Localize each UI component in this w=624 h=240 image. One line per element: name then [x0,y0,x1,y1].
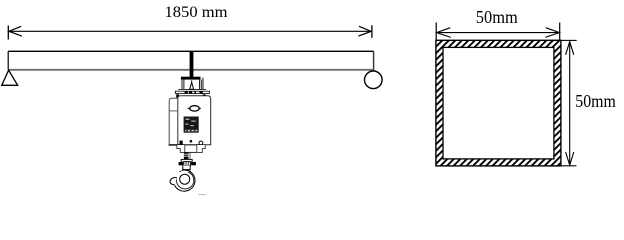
hook beak [170,178,177,185]
left panel divider [169,110,178,112]
suspension cross line [178,89,206,91]
hook shadow [198,194,205,196]
top arrowhead right [545,28,559,38]
pin support triangle left [2,70,18,85]
dimension line 1850 [9,30,371,32]
bracket posts [182,78,203,90]
hook shank [183,165,190,169]
top dim extension right [559,23,561,41]
hook body outer [175,170,195,191]
bottom small knob [190,140,193,143]
hook collar [179,170,191,172]
hoist hanger bar [190,52,194,77]
hook body inner contour [176,172,193,189]
left panel [169,98,178,145]
suspension band [175,91,209,93]
bottom fitting bolt [180,141,183,145]
right arrowhead bottom [566,152,574,165]
swivel nut left [179,162,184,165]
body top right stubs [203,96,206,144]
swivel plate [181,159,192,162]
label sticker [184,117,199,133]
arrowhead right [358,26,371,36]
tube inner outline [443,47,554,158]
beam bottom line (gray) [8,69,373,71]
swivel nut right [191,162,196,165]
oval emblem [190,106,199,111]
top dim extension left [435,23,437,41]
beam outline [8,51,173,69]
right dimension line [569,42,571,166]
dimension extension tick right [371,25,373,38]
svg-text:1850 mm: 1850 mm [165,4,229,21]
right arrowhead top [566,42,574,55]
right dim extension top [562,39,577,41]
ribbed shaft [184,152,189,159]
roller support circle right [365,71,383,89]
tube wall hatched [436,40,561,166]
swivel cylinder [184,162,191,166]
svg-text:50mm: 50mm [575,91,616,111]
center cone hook holder [191,80,193,83]
main body [178,96,211,145]
tube outer outline [436,40,561,166]
chain block [185,145,197,152]
body top band [180,96,202,98]
top dimension line [437,32,560,34]
hook eye inner [180,174,190,184]
arrowhead left [9,26,22,36]
band bolts [176,91,205,98]
hoist top cross bar [181,77,201,80]
dimension extension tick left [7,26,9,40]
bottom ring [199,141,203,145]
top arrowhead left [437,28,451,38]
bottom plate [177,145,205,152]
svg-text:50mm: 50mm [476,7,518,27]
bottom plate line [169,144,204,146]
right dim extension bottom [562,165,577,167]
shaft side lines [189,152,191,159]
